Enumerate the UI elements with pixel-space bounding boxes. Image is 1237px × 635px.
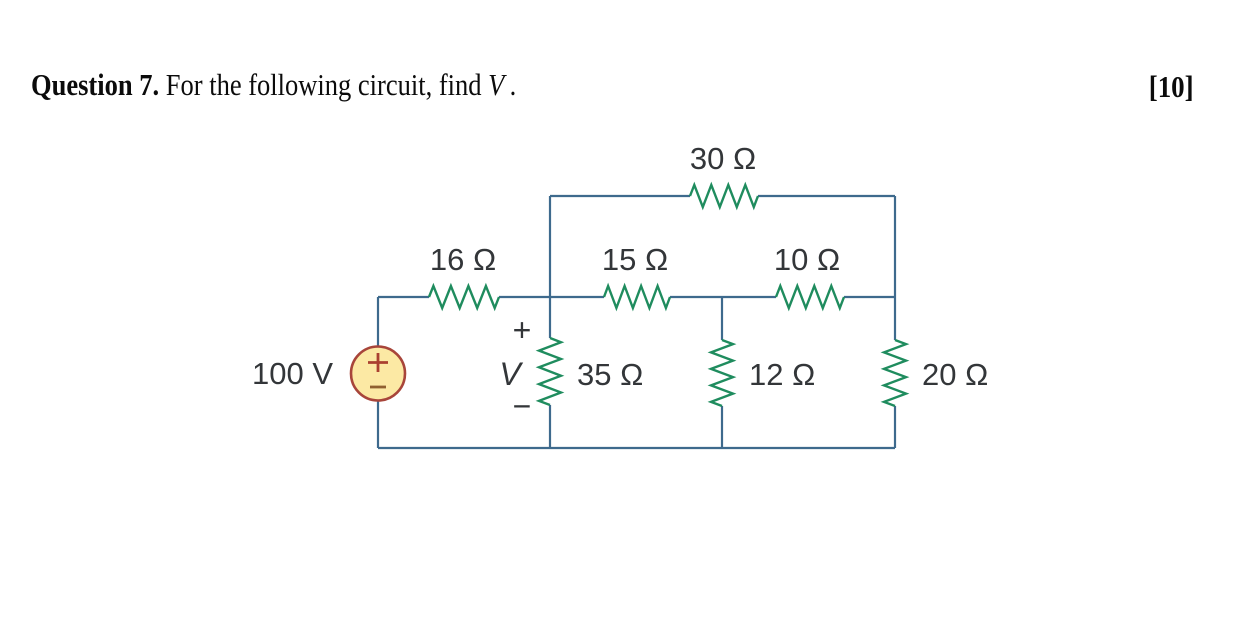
resistor 15 ohm zigzag [604,286,670,308]
question text [31,67,516,103]
wire: vertical branch x=550 (35 ohm) [549,196,551,338]
svg-text:12 Ω: 12 Ω [749,357,815,392]
svg-text:V: V [499,356,523,392]
wire: top horizontal rail y=196 [550,195,690,197]
wire: middle horizontal rail y=297 [378,296,429,298]
svg-text:30 Ω: 30 Ω [690,141,756,176]
resistor 10 ohm zigzag [776,286,844,308]
svg-text:20 Ω: 20 Ω [922,357,988,392]
source minus sign [370,386,386,389]
source plus sign [368,353,388,372]
svg-text:100 V: 100 V [252,356,333,391]
voltage source 100V circle [351,347,405,401]
marks [10] [1149,69,1194,105]
resistor 16 ohm zigzag [429,286,499,308]
wire: bottom horizontal rail y=448 [378,447,895,449]
wire: left vertical branch x=378 [377,297,379,347]
svg-text:35 Ω: 35 Ω [577,357,643,392]
resistor 20 ohm zigzag [884,340,906,406]
resistor 35 ohm zigzag [539,338,561,405]
svg-text:15 Ω: 15 Ω [602,242,668,277]
svg-text:−: − [513,388,532,424]
wire: vertical branch x=722 (12 ohm) [721,297,723,340]
svg-text:10 Ω: 10 Ω [774,242,840,277]
svg-text:+: + [513,312,532,348]
resistor 30 ohm zigzag [690,185,758,207]
wire: right vertical branch x=895 (20 ohm) [894,196,896,340]
svg-text:16 Ω: 16 Ω [430,242,496,277]
resistor 12 ohm zigzag [711,340,733,406]
